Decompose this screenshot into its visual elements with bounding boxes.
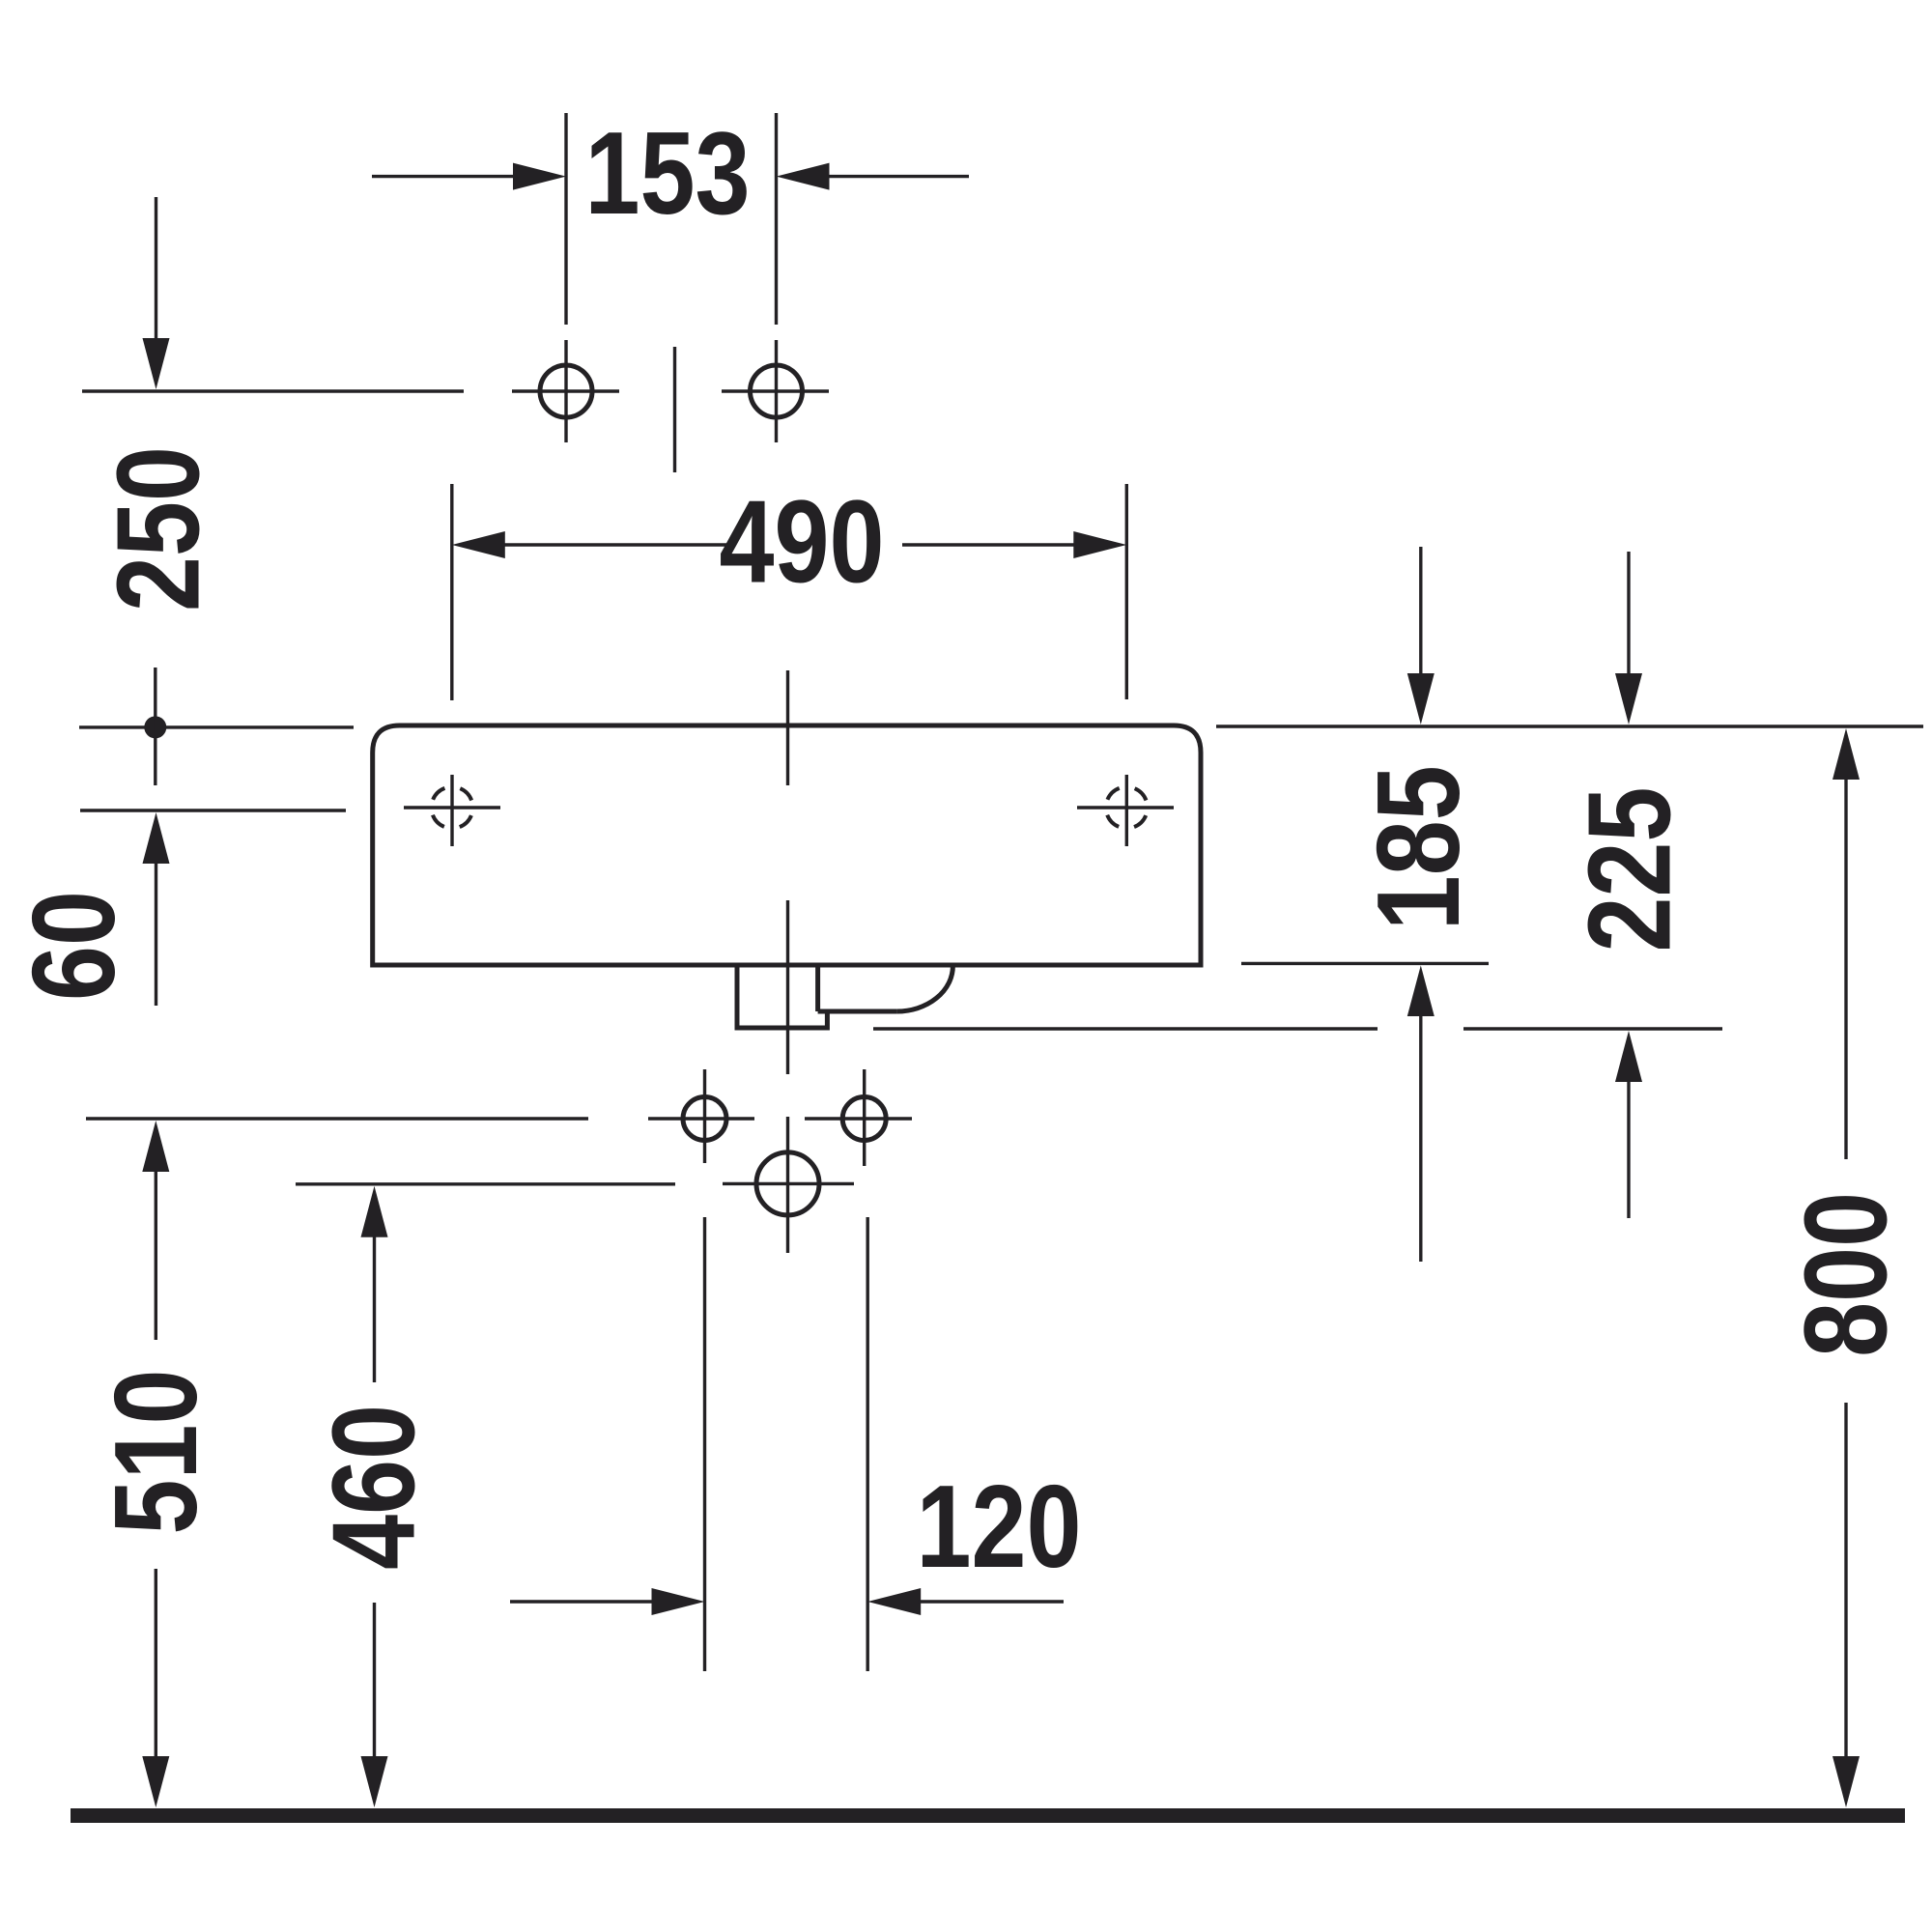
lower fixing hole right crosshair vertical (863, 1069, 866, 1166)
arrowhead 510 top (tip up at y=1158) (142, 1121, 169, 1172)
dim 60 stem (155, 862, 157, 1006)
reference line at drain circle level (460 top) (296, 1182, 675, 1185)
svg-text:510: 510 (90, 1370, 221, 1535)
arrowhead 490 left (tip at x=467.8 pointing left) (452, 531, 505, 558)
extension line left of dim 490 (x=467.8) (450, 484, 453, 700)
dim line 490 right segment (902, 543, 1078, 546)
lower fixing hole right circle (842, 1097, 886, 1141)
basin centerline segment 2 (786, 900, 789, 1074)
dim 185 stem top (1419, 547, 1422, 678)
svg-text:460: 460 (307, 1405, 439, 1570)
label 60 (rotated) (8, 891, 139, 1001)
lower fixing hole left circle (683, 1097, 726, 1141)
reference line at faucet hole level (250 top) (82, 389, 464, 392)
reference line at rim level (left, with dot) (79, 725, 354, 728)
drain trap shelf horizontal (818, 1009, 897, 1014)
drain outlet crosshair horizontal (723, 1182, 854, 1185)
label 800 (rotated) (1779, 1192, 1911, 1357)
measuring dot at rim level (144, 716, 166, 738)
arrowhead 153 right (tip at x=803.5 pointing left) (777, 163, 830, 190)
lower fixing hole left crosshair horizontal (648, 1117, 754, 1120)
arrowhead 510 bottom (tip down at floor) (142, 1756, 169, 1807)
svg-text:120: 120 (917, 1461, 1082, 1592)
label 225 (rotated) (1563, 787, 1694, 952)
lower fixing hole right crosshair horizontal (805, 1117, 912, 1120)
reference line at rim level right side (1216, 724, 1923, 727)
dim 225 stem bottom (1627, 1080, 1630, 1218)
dim 185 stem bottom (1419, 1014, 1422, 1262)
label 460 (rotated) (307, 1405, 439, 1570)
dim 510 stem upper (155, 1170, 157, 1340)
arrowhead 460 bottom (tip down at floor) (361, 1756, 388, 1807)
extension line right of dim 490 (x=1166.3) (1125, 484, 1128, 699)
wall mounting hole left crosshair vertical (450, 775, 453, 846)
label 250 (rotated) (92, 446, 223, 611)
dim line 153 right tail (827, 175, 970, 178)
arrowhead 120 right (tip at x=899.4 pointing left) (867, 1588, 921, 1615)
dim line 153 left tail (372, 175, 516, 178)
washbasin body outline (373, 725, 1201, 965)
arrowhead 800 top (tip up at y=752) (1833, 728, 1860, 780)
label 490 (720, 475, 885, 607)
svg-text:225: 225 (1563, 787, 1694, 952)
reference line at fixing hole level (510 top) (86, 1117, 588, 1120)
label 510 (rotated) (90, 1370, 221, 1535)
extension line left of dim 120 (x=729.5) (703, 1217, 706, 1671)
short vertical through dot (154, 668, 156, 785)
dim line 120 left tail (510, 1600, 657, 1603)
dim line 120 right tail (918, 1600, 1064, 1603)
drain trap curve (896, 966, 952, 1011)
faucet hole right circle (751, 365, 803, 417)
arrowhead 153 left (tip at x=586 pointing right) (513, 163, 566, 190)
arrowhead 225 top (tip down at y=752) (1615, 673, 1642, 724)
arrowhead 120 left (tip at x=729.5 pointing right) (652, 1588, 705, 1615)
basin centerline segment 4 (through drain circle) (786, 1117, 789, 1253)
arrowhead 800 bottom (tip down at floor) (1833, 1756, 1860, 1807)
wall mounting hole left crosshair horizontal (404, 806, 500, 809)
svg-text:490: 490 (720, 475, 885, 607)
svg-text:60: 60 (8, 891, 139, 1001)
label 153 (585, 107, 751, 239)
dim 460 stem lower (373, 1603, 376, 1759)
drain tailpiece outline (737, 965, 827, 1028)
reference line at basin bottom level (185 bottom) (1241, 962, 1489, 965)
faucet hole left circle (540, 365, 592, 417)
wall mounting hole right crosshair horizontal (1077, 806, 1174, 809)
lower fixing hole left crosshair vertical (703, 1069, 706, 1163)
faucet hole left crosshair vertical (564, 340, 567, 442)
label 120 (917, 1461, 1082, 1592)
basin centerline segment 1 (786, 670, 789, 785)
faucet hole left crosshair horizontal (512, 389, 619, 392)
arrowhead 460 top (tip up at y=1225.8) (361, 1186, 388, 1237)
reference line at drain outlet level left (873, 1027, 1378, 1030)
label 185 (rotated) (1352, 765, 1484, 930)
floor line (71, 1808, 1905, 1823)
extension line right of dim 120 (x=899.4) (867, 1217, 869, 1671)
wall mounting hole right crosshair vertical (1125, 775, 1128, 846)
faucet hole right crosshair horizontal (722, 389, 829, 392)
drain outlet circle (756, 1152, 819, 1215)
drain tailpiece inner vertical (815, 965, 820, 1011)
svg-text:185: 185 (1352, 765, 1484, 930)
dim 800 stem lower (1844, 1403, 1847, 1759)
svg-text:250: 250 (92, 446, 223, 611)
dim 250 stem top (155, 197, 157, 340)
svg-text:800: 800 (1779, 1192, 1911, 1357)
svg-text:153: 153 (585, 107, 751, 239)
arrowhead 225 bottom (tip up at y=1065) (1615, 1031, 1642, 1082)
wall mounting hole left (dashed circle) (432, 787, 473, 829)
faucet hole right crosshair vertical (775, 340, 778, 442)
extension line right of dim 153 (x=803.5) (775, 113, 778, 325)
arrowhead 185 top (tip down at y=752) (1407, 673, 1435, 724)
dim 510 stem lower (155, 1569, 157, 1759)
centerline between faucet holes (673, 347, 676, 472)
dim 460 stem upper (373, 1236, 376, 1382)
dim 225 stem top (1627, 552, 1630, 678)
arrowhead 60 (tip up at y=839) (143, 812, 170, 864)
dim 800 stem upper (1844, 778, 1847, 1159)
reference line at mount hole level (60 bottom) (80, 809, 346, 811)
dim line 490 left segment (502, 543, 731, 546)
arrowhead 185 bottom (tip up at y=997.4) (1407, 965, 1435, 1016)
arrowhead 250 (tip down at y=403) (143, 338, 170, 389)
extension line left of dim 153 (x=586) (564, 113, 567, 325)
arrowhead 490 right (tip at x=1166.3 pointing right) (1073, 531, 1126, 558)
reference line at drain outlet level right (1463, 1027, 1722, 1030)
wall mounting hole right (dashed circle) (1106, 787, 1148, 829)
